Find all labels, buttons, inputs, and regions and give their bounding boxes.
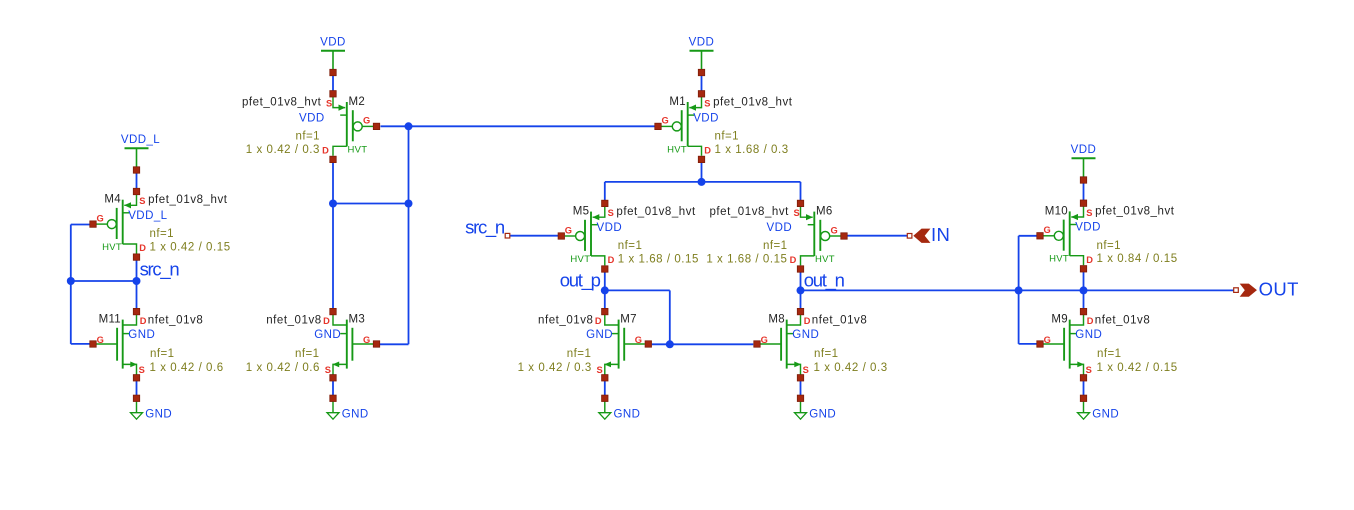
wire M2 gate to M1 gate <box>381 125 656 127</box>
junction out_p at gate wire <box>666 340 674 348</box>
svg-text:G: G <box>97 213 104 223</box>
svg-text:1 x 0.42 / 0.3: 1 x 0.42 / 0.3 <box>246 144 320 156</box>
svg-text:nfet_01v8: nfet_01v8 <box>812 314 867 326</box>
wire out_p branch horizontal <box>605 289 670 291</box>
svg-text:S: S <box>608 208 614 218</box>
svg-text:S: S <box>326 98 332 108</box>
wire VDD to M10 source <box>1083 180 1085 203</box>
wire M4 drain to M11 drain (src_n) <box>136 257 138 312</box>
svg-text:GND: GND <box>614 409 641 421</box>
svg-text:nf=1: nf=1 <box>814 348 839 360</box>
svg-text:M3: M3 <box>349 314 366 326</box>
svg-text:1 x 0.42 / 0.3: 1 x 0.42 / 0.3 <box>814 362 888 374</box>
ground symbol GND <box>131 401 143 419</box>
svg-text:GND: GND <box>1075 329 1102 341</box>
svg-text:G: G <box>1044 225 1051 235</box>
svg-text:nfet_01v8: nfet_01v8 <box>266 314 321 326</box>
svg-text:pfet_01v8_hvt: pfet_01v8_hvt <box>616 206 696 218</box>
wire VDD to M2 source <box>332 73 334 94</box>
wire M5 drain to M7 drain (out_p) <box>604 269 606 312</box>
svg-text:S: S <box>1086 365 1092 375</box>
svg-text:VDD: VDD <box>767 222 793 234</box>
junction left rail / src_n <box>67 277 75 285</box>
power supply symbol VDD <box>321 51 345 69</box>
wire M9 source to GND <box>1083 378 1085 399</box>
junction M2 drain branch <box>329 200 337 208</box>
input pin IN arrow <box>914 229 930 243</box>
svg-text:pfet_01v8_hvt: pfet_01v8_hvt <box>1095 206 1175 218</box>
svg-text:GND: GND <box>809 409 836 421</box>
svg-text:D: D <box>322 145 329 155</box>
svg-text:nfet_01v8: nfet_01v8 <box>538 314 593 326</box>
wire M3 source to GND <box>332 378 334 399</box>
svg-text:1 x 1.68 / 0.3: 1 x 1.68 / 0.3 <box>715 144 789 156</box>
wire VDD_L to M4 source <box>136 170 138 192</box>
wire right rail vertical <box>1018 236 1020 344</box>
junction M1 drain bus <box>698 178 706 186</box>
svg-text:HVT: HVT <box>1049 254 1069 265</box>
wire bus to M6 source <box>800 182 802 204</box>
node IN pin square <box>907 234 912 239</box>
wire out_n to OUT <box>801 289 1234 291</box>
svg-text:1 x 1.68 / 0.15: 1 x 1.68 / 0.15 <box>618 253 699 265</box>
svg-text:G: G <box>97 335 104 345</box>
svg-text:M5: M5 <box>573 206 590 218</box>
svg-text:nf=1: nf=1 <box>150 348 175 360</box>
svg-text:D: D <box>1086 255 1093 265</box>
svg-text:D: D <box>790 255 797 265</box>
power supply symbol VDD <box>1072 158 1096 177</box>
svg-text:HVT: HVT <box>348 144 368 155</box>
svg-text:G: G <box>761 335 768 345</box>
transistor M2 (pfet_01v8_hvt) pfet symbol <box>333 97 373 156</box>
transistor M6 (pfet_01v8_hvt) pfet symbol <box>801 206 841 265</box>
svg-text:1 x 0.42 / 0.6: 1 x 0.42 / 0.6 <box>246 362 320 374</box>
transistor M10 (pfet_01v8_hvt) pfet symbol <box>1044 206 1084 265</box>
svg-text:1 x 1.68 / 0.15: 1 x 1.68 / 0.15 <box>706 253 787 265</box>
wire M7 source to GND <box>604 378 606 399</box>
svg-text:G: G <box>363 335 370 345</box>
transistor M8 (nfet_01v8) nfet symbol <box>761 315 802 375</box>
svg-text:D: D <box>595 316 602 326</box>
wire M8 source to GND <box>800 378 802 399</box>
junction M2 gate / gate rail <box>405 122 413 130</box>
svg-text:HVT: HVT <box>667 144 687 155</box>
svg-text:M4: M4 <box>104 194 121 206</box>
transistor M4 (pfet_01v8_hvt) pfet symbol <box>97 195 137 254</box>
svg-text:nf=1: nf=1 <box>618 240 643 252</box>
junction right rail / OUT net <box>1015 286 1023 294</box>
svg-text:GND: GND <box>1092 409 1119 421</box>
output pin OUT arrow <box>1241 284 1257 296</box>
wire IN pin to M6 gate <box>847 235 907 237</box>
svg-text:VDD: VDD <box>1075 222 1101 234</box>
svg-text:M9: M9 <box>1051 314 1068 326</box>
svg-text:VDD: VDD <box>689 37 715 49</box>
svg-text:S: S <box>793 208 799 218</box>
svg-text:D: D <box>1087 316 1094 326</box>
svg-text:S: S <box>139 365 145 375</box>
node src_n pin square <box>505 233 510 238</box>
transistor M11 (nfet_01v8) nfet symbol <box>97 315 138 375</box>
svg-text:HVT: HVT <box>102 242 122 253</box>
svg-text:VDD: VDD <box>320 37 346 49</box>
svg-text:GND: GND <box>314 329 341 341</box>
svg-text:S: S <box>1086 208 1092 218</box>
svg-text:nf=1: nf=1 <box>715 130 740 142</box>
wire left rail vertical (M4 gate to M11 gate) <box>70 225 72 344</box>
wire M11 source to GND <box>136 378 138 399</box>
svg-text:nf=1: nf=1 <box>567 348 592 360</box>
junction src_n at M4 drain <box>133 277 141 285</box>
svg-text:nf=1: nf=1 <box>763 240 788 252</box>
svg-text:GND: GND <box>342 409 369 421</box>
svg-text:S: S <box>325 365 331 375</box>
ground symbol GND <box>795 401 807 419</box>
svg-text:G: G <box>662 116 669 126</box>
svg-text:nf=1: nf=1 <box>295 130 320 142</box>
svg-text:D: D <box>804 316 811 326</box>
svg-text:VDD_L: VDD_L <box>128 210 167 222</box>
svg-text:G: G <box>830 225 837 235</box>
wire M2 drain to M3 drain <box>332 159 334 311</box>
svg-text:VDD: VDD <box>1071 144 1097 156</box>
svg-text:GND: GND <box>792 329 819 341</box>
svg-text:out_n: out_n <box>804 269 845 291</box>
svg-text:GND: GND <box>145 409 172 421</box>
ground symbol GND <box>327 401 339 419</box>
junction gate rail branch <box>405 200 413 208</box>
svg-text:nf=1: nf=1 <box>1097 240 1122 252</box>
svg-text:S: S <box>596 365 602 375</box>
svg-text:M6: M6 <box>816 206 833 218</box>
svg-text:1 x 0.84 / 0.15: 1 x 0.84 / 0.15 <box>1097 253 1178 265</box>
svg-text:nf=1: nf=1 <box>295 348 320 360</box>
transistor M3 (nfet_01v8) nfet symbol <box>332 315 373 375</box>
node OUT pin square <box>1234 288 1239 293</box>
svg-text:src_n: src_n <box>465 216 505 238</box>
wire out_p branch vertical <box>669 290 671 344</box>
ground symbol GND <box>1078 401 1090 419</box>
svg-text:G: G <box>635 335 642 345</box>
svg-text:M11: M11 <box>99 314 121 326</box>
svg-text:VDD_L: VDD_L <box>121 134 160 146</box>
transistor M9 (nfet_01v8) nfet symbol <box>1044 315 1085 375</box>
junction M10 drain / OUT net <box>1080 286 1088 294</box>
svg-text:1 x 0.42 / 0.3: 1 x 0.42 / 0.3 <box>518 362 592 374</box>
svg-text:VDD: VDD <box>693 112 719 124</box>
svg-text:nf=1: nf=1 <box>150 228 175 240</box>
svg-text:pfet_01v8_hvt: pfet_01v8_hvt <box>713 96 793 108</box>
svg-text:HVT: HVT <box>570 254 590 265</box>
wire M1 drain down <box>701 159 703 182</box>
svg-text:VDD: VDD <box>299 112 325 124</box>
wire M4 gate to left rail <box>71 224 90 226</box>
power supply symbol VDD <box>690 51 714 69</box>
wire M10 drain to M9 drain (OUT net) <box>1083 269 1085 312</box>
svg-text:nfet_01v8: nfet_01v8 <box>148 314 203 326</box>
wire src_n horizontal <box>71 280 137 282</box>
svg-text:pfet_01v8_hvt: pfet_01v8_hvt <box>148 194 228 206</box>
svg-text:OUT: OUT <box>1259 279 1299 300</box>
ground symbol GND <box>599 401 611 419</box>
svg-text:D: D <box>139 243 146 253</box>
junction out_n <box>797 286 805 294</box>
svg-text:M1: M1 <box>669 96 686 108</box>
wire gate rail vertical <box>408 126 410 344</box>
wire src_n pin to M5 gate <box>510 235 559 237</box>
svg-text:M8: M8 <box>768 314 785 326</box>
wire M7 gate to M8 gate <box>652 343 754 345</box>
svg-text:nfet_01v8: nfet_01v8 <box>1095 314 1150 326</box>
transistor M7 (nfet_01v8) nfet symbol <box>604 315 645 375</box>
svg-text:pfet_01v8_hvt: pfet_01v8_hvt <box>242 96 322 108</box>
wire M10 gate to right rail <box>1019 235 1037 237</box>
svg-text:M7: M7 <box>620 314 637 326</box>
wire bus to M5 source <box>604 182 606 204</box>
svg-text:IN: IN <box>931 224 950 245</box>
svg-text:GND: GND <box>128 329 155 341</box>
svg-text:HVT: HVT <box>815 254 835 265</box>
svg-text:1 x 0.42 / 0.15: 1 x 0.42 / 0.15 <box>1097 362 1178 374</box>
svg-text:VDD: VDD <box>597 222 623 234</box>
svg-text:D: D <box>140 316 147 326</box>
svg-text:D: D <box>704 145 711 155</box>
svg-text:D: D <box>323 316 330 326</box>
svg-text:G: G <box>1044 335 1051 345</box>
wire M1 drain bus horizontal <box>605 181 801 183</box>
wire M2 drain branch <box>333 203 409 205</box>
svg-text:D: D <box>608 255 615 265</box>
wire VDD to M1 source <box>701 73 703 94</box>
power supply symbol VDD_L <box>125 148 149 167</box>
svg-text:S: S <box>139 196 145 206</box>
junction out_p <box>601 286 609 294</box>
svg-text:pfet_01v8_hvt: pfet_01v8_hvt <box>709 206 789 218</box>
wire gate rail to M3 gate <box>380 343 409 345</box>
wire right rail to M9 gate <box>1019 343 1037 345</box>
svg-text:src_n: src_n <box>140 258 180 280</box>
svg-text:M2: M2 <box>349 96 366 108</box>
svg-text:GND: GND <box>586 329 613 341</box>
svg-text:nf=1: nf=1 <box>1097 348 1122 360</box>
wire left rail to M11 gate <box>71 343 90 345</box>
svg-text:G: G <box>565 225 572 235</box>
transistor M1 (pfet_01v8_hvt) pfet symbol <box>662 97 702 156</box>
svg-text:M10: M10 <box>1045 205 1068 217</box>
svg-text:S: S <box>704 98 710 108</box>
wire M6 drain to M8 drain (out_n) <box>800 269 802 312</box>
svg-text:G: G <box>363 116 370 126</box>
svg-text:out_p: out_p <box>560 269 601 291</box>
transistor M5 (pfet_01v8_hvt) pfet symbol <box>565 206 605 265</box>
svg-text:1 x 0.42 / 0.6: 1 x 0.42 / 0.6 <box>150 362 224 374</box>
svg-text:1 x 0.42 / 0.15: 1 x 0.42 / 0.15 <box>150 242 231 254</box>
svg-text:S: S <box>803 365 809 375</box>
